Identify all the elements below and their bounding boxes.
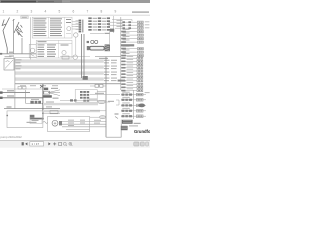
tick <box>13 19 15 20</box>
bus wire <box>2 53 36 55</box>
wire <box>90 33 104 35</box>
bus band low 2 <box>43 110 100 112</box>
bus band low 1 <box>43 103 98 105</box>
pump box P1 <box>48 116 90 131</box>
wire vertical <box>75 37 77 55</box>
coil L1 <box>14 22 23 37</box>
bottom right terminal cluster <box>121 120 141 130</box>
toolbar icon menu <box>22 142 24 145</box>
wire <box>13 57 36 59</box>
toolbar right icon 2 <box>140 142 144 146</box>
svg-text:5: 5 <box>59 10 61 14</box>
terminal block grid TB1 <box>88 17 110 30</box>
right rail <box>120 17 122 90</box>
pump wires <box>62 121 106 129</box>
connector rows right top <box>121 29 144 57</box>
wire vertical <box>13 19 15 54</box>
bus end labels <box>104 60 117 81</box>
sensor pill <box>98 100 114 103</box>
sensor boxes <box>95 84 103 87</box>
wire left feed 1 <box>0 90 30 94</box>
label <box>95 93 104 94</box>
connector left cap <box>87 46 90 50</box>
tick <box>131 20 133 22</box>
toolbar separator <box>0 139 150 142</box>
motor mark <box>54 122 57 125</box>
pump coupler dark <box>59 121 62 125</box>
toolbar icon fit <box>59 142 62 145</box>
label <box>9 52 14 53</box>
relay cluster K3 <box>40 85 60 99</box>
wire <box>90 94 120 96</box>
motor circle M1 <box>74 33 78 37</box>
wire vertical <box>14 58 16 93</box>
bus band 3 <box>15 71 104 74</box>
arrow mark <box>2 20 6 26</box>
label <box>105 33 110 34</box>
toolbar icon zoom-in <box>69 142 73 146</box>
motor circle M3 <box>52 120 58 126</box>
legend table T2 <box>36 40 72 58</box>
wire vertical <box>120 130 122 137</box>
wire dark <box>30 118 43 120</box>
svg-text:9: 9 <box>115 10 117 14</box>
small mark <box>115 113 119 118</box>
toolbar icon plus <box>53 142 56 145</box>
box <box>50 111 58 114</box>
box <box>30 118 42 124</box>
grid column labels <box>3 10 117 14</box>
wire <box>60 56 90 58</box>
svg-text:8: 8 <box>101 10 103 14</box>
pump unit box <box>7 111 43 128</box>
small box <box>62 56 69 59</box>
legend table T1 <box>32 17 72 38</box>
label <box>99 58 108 59</box>
chain link coupling <box>91 40 98 43</box>
lower right connector rows <box>121 92 150 118</box>
inline connector body <box>90 46 104 50</box>
svg-text:2: 2 <box>17 10 19 14</box>
wire <box>4 108 60 110</box>
svg-text:1 / 17: 1 / 17 <box>31 142 39 146</box>
wire vertical <box>83 34 85 78</box>
pin stubs left <box>76 21 79 30</box>
terminal dark <box>83 76 88 80</box>
toolbar icon zoom-out <box>63 142 67 146</box>
control box <box>75 90 97 103</box>
window title bar <box>0 0 150 3</box>
wire <box>112 19 132 21</box>
pump wire labels <box>68 120 101 126</box>
junction dots <box>42 103 44 120</box>
toolbar icon next <box>48 142 50 145</box>
chain lead blob <box>87 41 89 43</box>
wire vertical <box>113 16 115 33</box>
wire vertical <box>109 30 111 44</box>
fuse row F1 F2 F3 <box>30 101 41 104</box>
wire corner <box>106 120 121 138</box>
box label <box>32 120 39 121</box>
bus band 2 <box>15 65 104 68</box>
bracket <box>116 100 119 105</box>
toolbar icon prev <box>25 142 27 145</box>
sensor pill 2 <box>90 116 106 119</box>
relay box K1 <box>4 56 22 70</box>
svg-text:pump 2104-2012: pump 2104-2012 <box>1 135 23 139</box>
wire vertical <box>14 93 16 109</box>
small boxes <box>18 86 26 89</box>
toolbar right icon 1 <box>134 142 139 146</box>
wire labels <box>46 102 54 108</box>
connector rows right mid <box>118 56 143 92</box>
wires to connector <box>72 22 78 29</box>
edge terminal <box>0 53 2 55</box>
wire <box>43 112 60 114</box>
bus dark line <box>15 83 121 84</box>
label 5A <box>7 106 12 107</box>
connector rows tr <box>108 20 149 29</box>
wire <box>95 56 121 58</box>
sheet title top-right <box>132 11 149 12</box>
wire vertical left rail <box>30 17 32 61</box>
bus band 4 <box>15 77 104 80</box>
relay symbol box K2 <box>29 44 36 57</box>
fuse labels <box>31 99 39 100</box>
wire labels row <box>20 85 58 86</box>
wire vertical <box>25 90 27 104</box>
junction dot <box>6 115 8 117</box>
svg-text:3: 3 <box>31 10 33 14</box>
svg-text:6: 6 <box>73 10 75 14</box>
svg-text:4: 4 <box>45 10 47 14</box>
terminal dark <box>30 115 35 119</box>
svg-text:Grundfos: Grundfos <box>134 129 150 134</box>
wires vertical through buses <box>80 34 82 78</box>
wire with sensors <box>60 99 106 102</box>
toolbar band <box>0 141 150 148</box>
svg-text:7: 7 <box>87 10 89 14</box>
svg-text:1: 1 <box>3 10 5 14</box>
label box D1 <box>21 16 28 19</box>
wire vertical thick <box>42 84 44 120</box>
bus band 1 <box>15 59 104 62</box>
page counter box <box>30 142 44 147</box>
page top border <box>0 14 150 17</box>
terminal grid dark <box>80 91 89 102</box>
toolbar right icon 3 <box>146 142 149 146</box>
flex coupling squiggle <box>43 122 48 124</box>
connector strip X1 (pin column) <box>79 20 84 33</box>
connector end block <box>105 44 110 51</box>
wire <box>97 91 106 93</box>
label Pumpe <box>27 122 37 123</box>
terminal dark <box>110 29 114 32</box>
motor circle M2 <box>73 55 77 59</box>
wire left feed 2 <box>0 95 43 99</box>
wire vertical <box>133 90 135 119</box>
wire diagonal supply <box>3 18 10 54</box>
wire <box>26 103 43 105</box>
long vertical rail <box>105 57 107 138</box>
wire <box>2 88 43 90</box>
label <box>9 55 14 56</box>
wire <box>90 110 106 112</box>
wire vertical <box>21 38 23 54</box>
wire <box>90 85 106 87</box>
